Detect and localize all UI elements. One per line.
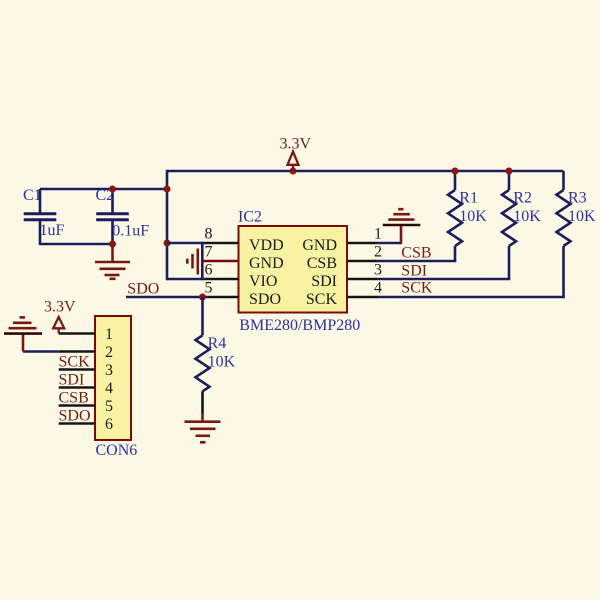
svg-text:SDO: SDO [59, 407, 91, 424]
pin stub 6 [205, 278, 239, 281]
svg-text:SDI: SDI [311, 273, 337, 290]
wire: VDD-VIO tie vertical [201, 242, 204, 281]
svg-text:3: 3 [374, 262, 382, 279]
wire: R4 to ground [201, 391, 204, 413]
svg-text:CSB: CSB [59, 389, 89, 406]
svg-text:SCK: SCK [306, 291, 338, 308]
svg-text:10K: 10K [568, 208, 596, 225]
svg-text:7: 7 [205, 244, 213, 261]
pin stub 2 [347, 260, 377, 263]
svg-text:1: 1 [374, 226, 382, 243]
pin stub 8 [205, 242, 239, 245]
pin stub 3 [347, 278, 377, 281]
svg-text:VIO: VIO [249, 273, 277, 290]
svg-text:1: 1 [105, 326, 113, 343]
power 3.3V top [280, 136, 312, 172]
resistor R2 [502, 171, 516, 279]
junction dot rail/cap line [164, 186, 171, 193]
svg-text:10K: 10K [513, 208, 541, 225]
pin stub 4 [347, 296, 377, 299]
junction dot C2 bottom [109, 241, 116, 248]
connector CON6 body [95, 316, 131, 440]
svg-text:CON6: CON6 [96, 442, 138, 459]
junction dot R4 top [199, 294, 206, 301]
svg-text:GND: GND [302, 237, 337, 254]
svg-text:8: 8 [205, 226, 213, 243]
svg-text:BME280/BMP280: BME280/BMP280 [239, 317, 360, 334]
wire: capacitor bottom line C1 to C2 [40, 243, 113, 246]
svg-text:SDO: SDO [127, 281, 159, 298]
junction dot 3.3V rail [290, 168, 297, 175]
svg-text:R3: R3 [568, 190, 587, 207]
pin stub CON6-5 [59, 404, 95, 407]
svg-text:VDD: VDD [249, 237, 284, 254]
wire: capacitor top line C1-C2 to rail vertical [40, 188, 168, 191]
svg-text:0.1uF: 0.1uF [112, 223, 149, 240]
svg-text:SDO: SDO [249, 291, 281, 308]
ground below C2 [95, 244, 130, 279]
pin stub CON6-2 [59, 350, 95, 353]
svg-text:SCK: SCK [401, 280, 433, 297]
svg-text:CSB: CSB [401, 245, 431, 262]
svg-text:4: 4 [105, 380, 113, 397]
svg-text:5: 5 [205, 280, 213, 297]
svg-text:SDI: SDI [59, 371, 85, 388]
resistor R3 [557, 171, 571, 298]
wire: pin 8 VDD [167, 242, 205, 245]
capacitor C1 [24, 189, 57, 245]
pin stub CON6-6 [59, 422, 95, 425]
svg-text:SCK: SCK [59, 353, 91, 370]
capacitor C2 [96, 189, 129, 245]
pin stub CON6-3 [59, 368, 95, 371]
svg-text:C1: C1 [23, 187, 42, 204]
svg-text:5: 5 [105, 398, 113, 415]
ground at pin 7 (sideways) [187, 249, 198, 275]
wire: SCK net to R3 [377, 296, 565, 299]
wire: SDI net to R2 [377, 278, 510, 281]
wire: pin 1 to ground [377, 242, 402, 245]
wire: left vertical from rail to VIO pin [166, 170, 169, 281]
svg-text:6: 6 [105, 416, 113, 433]
svg-text:4: 4 [374, 280, 382, 297]
svg-text:2: 2 [105, 344, 113, 361]
svg-text:6: 6 [205, 262, 213, 279]
ground at CON6 pin2 (inverted) [4, 317, 42, 351]
IC U1 body [239, 226, 348, 313]
pin stub CON6-1 [59, 332, 95, 335]
svg-text:R1: R1 [459, 190, 478, 207]
svg-text:SDI: SDI [401, 262, 427, 279]
pin stub CON6-4 [59, 386, 95, 389]
svg-text:10K: 10K [208, 353, 236, 370]
svg-text:3: 3 [105, 362, 113, 379]
junction dot VDD pin8 [164, 240, 171, 247]
svg-text:1uF: 1uF [40, 222, 65, 239]
svg-text:R4: R4 [208, 335, 227, 352]
wire: CON6-2 to ground [23, 350, 59, 353]
svg-text:R2: R2 [513, 190, 532, 207]
ground below R4 [185, 413, 221, 442]
wire: pin 5 SDO net [126, 296, 209, 299]
ground at pin 1 (inverted) [383, 209, 421, 243]
wire: CSB net to R1 [377, 260, 456, 263]
svg-text:CSB: CSB [307, 255, 337, 272]
junction dot C2 top [109, 186, 116, 193]
svg-text:GND: GND [249, 255, 284, 272]
resistor R1 [448, 171, 462, 261]
pin stub 1 [347, 242, 377, 245]
svg-text:3.3V: 3.3V [44, 299, 76, 316]
svg-text:10K: 10K [459, 208, 487, 225]
pin stub 5 [209, 296, 239, 299]
resistor R4 [196, 297, 210, 391]
junction dot R1 top [452, 168, 459, 175]
svg-text:3.3V: 3.3V [280, 136, 312, 153]
svg-text:IC2: IC2 [238, 208, 262, 225]
pin stub 7 GND [202, 260, 238, 263]
power 3.3V at CON6 [44, 299, 76, 334]
svg-text:2: 2 [374, 244, 382, 261]
wire: pin 6 VIO [167, 278, 205, 281]
wire: 3.3V power rail [167, 170, 564, 173]
junction dot R2 top [506, 168, 513, 175]
